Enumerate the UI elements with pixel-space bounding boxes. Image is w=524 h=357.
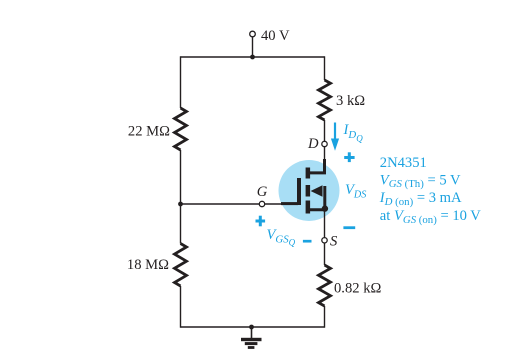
MOSFET highlight circle: [279, 160, 340, 221]
channel bar bottom: [306, 201, 311, 214]
substrate lead: [323, 186, 326, 209]
node D terminal circle: [322, 141, 327, 146]
drain lead elbow: [309, 159, 325, 173]
svg-text:IDQ: IDQ: [343, 122, 364, 143]
node junction top: [250, 55, 255, 60]
svg-text:G: G: [257, 184, 268, 200]
svg-text:3 kΩ: 3 kΩ: [336, 93, 365, 109]
svg-text:VGSQ: VGSQ: [267, 227, 296, 248]
wire bottom rail: [181, 326, 325, 328]
wire source: [324, 209, 326, 238]
wire left upper: [180, 56, 182, 108]
svg-text:18 MΩ: 18 MΩ: [127, 257, 169, 273]
node junction ground: [249, 325, 254, 330]
svg-text:D: D: [307, 136, 319, 152]
current arrow I_DQ: [331, 123, 339, 151]
minus sign V_DS: [343, 226, 355, 229]
wire left middle: [180, 150, 182, 244]
node junction source: [322, 205, 328, 211]
resistor 22 Mohm: [175, 108, 187, 150]
svg-text:40 V: 40 V: [261, 28, 290, 44]
svg-text:VGS (Th) = 5 V: VGS (Th) = 5 V: [380, 172, 461, 190]
svg-text:2N4351: 2N4351: [380, 155, 427, 171]
resistor 3 kohm: [319, 80, 331, 120]
wire drain lower: [324, 147, 326, 168]
ground: [241, 327, 262, 349]
wire top rail: [181, 56, 325, 58]
svg-text:VDS: VDS: [345, 182, 366, 200]
minus sign V_GSQ: [303, 240, 312, 243]
transistor Q1 (n-channel E-MOSFET): [281, 159, 325, 214]
wire gate horizontal: [181, 203, 260, 205]
resistor 18 Mohm: [175, 244, 187, 287]
svg-text:0.82 kΩ: 0.82 kΩ: [334, 281, 381, 297]
gate lead: [281, 202, 298, 205]
channel bar middle: [306, 185, 311, 197]
svg-text:22 MΩ: 22 MΩ: [128, 124, 170, 140]
wire gate stub: [265, 203, 281, 205]
svg-text:S: S: [330, 234, 338, 250]
wire left lower: [180, 286, 182, 328]
wire right upper: [324, 56, 326, 80]
channel bar top: [306, 168, 311, 179]
wire drain upper: [324, 120, 326, 141]
wire right lower: [324, 306, 326, 328]
resistor 0.82 kohm: [319, 265, 331, 306]
svg-text:ID (on) = 3 mA: ID (on) = 3 mA: [379, 190, 462, 208]
substrate arrow: [311, 185, 323, 196]
supply terminal 40 V: [250, 31, 256, 37]
node S terminal circle: [322, 238, 327, 243]
gate bar: [297, 178, 301, 205]
plus sign V_GSQ: [256, 216, 266, 227]
wire source lower: [324, 243, 326, 265]
plus sign V_DS: [344, 152, 354, 162]
wire supply stub: [252, 37, 254, 57]
source lead: [309, 208, 325, 211]
svg-text:at VGS (on) = 10 V: at VGS (on) = 10 V: [380, 208, 482, 226]
node junction gate branch: [178, 202, 183, 207]
node G terminal circle: [259, 201, 264, 206]
